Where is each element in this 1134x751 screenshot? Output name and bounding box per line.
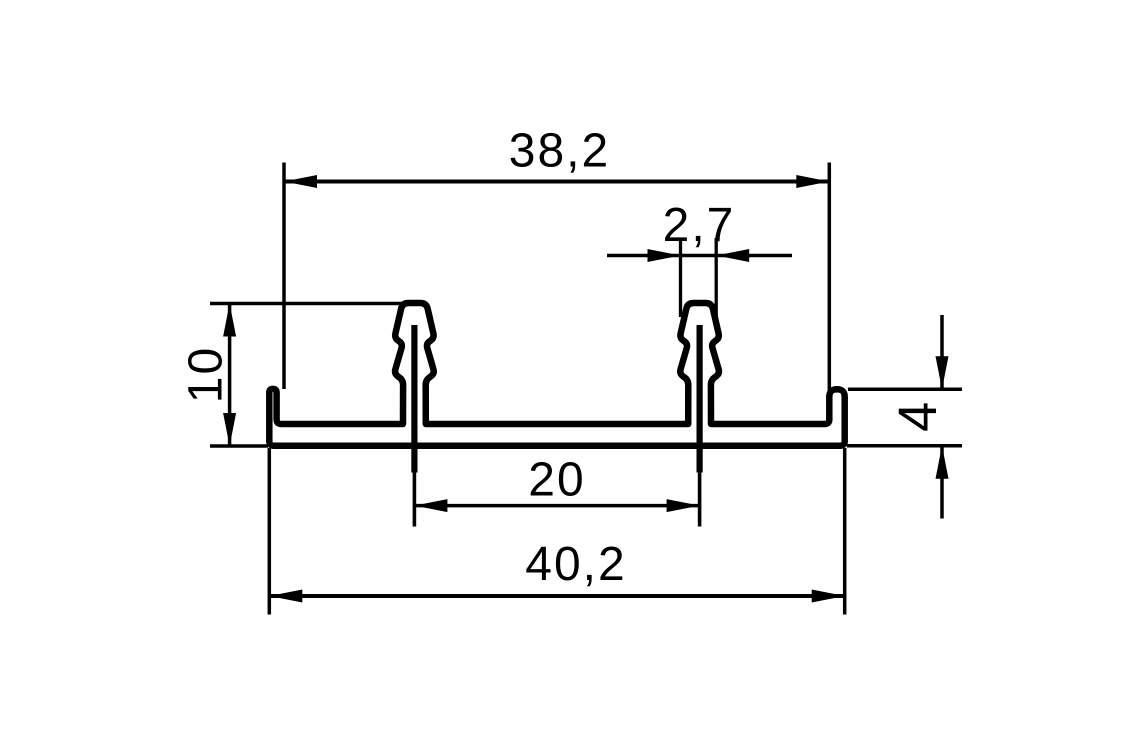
dim 2,7 arrow left (pointing right) bbox=[648, 249, 681, 262]
svg-text:38,2: 38,2 bbox=[509, 124, 610, 177]
profile outline (aluminium extrusion cross-section) bbox=[269, 303, 844, 446]
dim 20 line bbox=[414, 504, 699, 508]
dim 4 extension line bottom bbox=[847, 444, 962, 448]
dim 10 extension line bottom bbox=[210, 444, 268, 448]
dim 40,2 arrow left bbox=[269, 590, 302, 603]
dim 38,2 extension line left bbox=[282, 163, 286, 390]
centerline right clip (thin part) bbox=[698, 473, 702, 527]
dim 10 extension line top bbox=[210, 302, 406, 306]
dim 2,7 extension line right bbox=[715, 238, 718, 317]
svg-text:4: 4 bbox=[888, 400, 948, 432]
dim 40,2 line bbox=[269, 594, 844, 598]
centerline left clip (thick part) bbox=[411, 325, 417, 473]
dim 4 line upper segment bbox=[940, 315, 944, 389]
svg-text:10: 10 bbox=[180, 346, 233, 403]
dim 2,7 extension line left bbox=[679, 238, 682, 317]
centerline left clip (thin part) bbox=[413, 473, 417, 527]
dim 38,2 arrow left bbox=[284, 175, 317, 188]
svg-text:2,7: 2,7 bbox=[663, 199, 736, 252]
svg-text:40,2: 40,2 bbox=[525, 538, 626, 591]
dim 38,2 arrow right bbox=[796, 175, 829, 188]
dim 38,2 extension line right bbox=[828, 163, 832, 393]
dim 20 arrow right bbox=[667, 499, 700, 512]
dim 4 line lower segment bbox=[940, 446, 944, 519]
dim 10 line bbox=[228, 304, 232, 447]
dim 10 arrow up bbox=[223, 304, 236, 337]
dim 10 arrow down bbox=[223, 413, 236, 446]
dim 40,2 arrow right bbox=[812, 590, 845, 603]
dim 4 arrow up (tip at bottom ext) bbox=[936, 446, 949, 479]
svg-text:20: 20 bbox=[528, 454, 585, 507]
dim 2,7 line bbox=[607, 254, 792, 258]
centerline right clip (thick part) bbox=[696, 325, 702, 473]
dim 2,7 arrow right (pointing left) bbox=[716, 249, 749, 262]
dim 4 arrow down (tip at top ext) bbox=[936, 356, 949, 389]
dim 40,2 extension line left bbox=[268, 448, 272, 615]
dim 40,2 extension line right bbox=[843, 448, 847, 615]
dim 4 extension line top bbox=[848, 387, 962, 391]
dim 38,2 line bbox=[284, 180, 829, 184]
dim 20 arrow left bbox=[414, 499, 447, 512]
